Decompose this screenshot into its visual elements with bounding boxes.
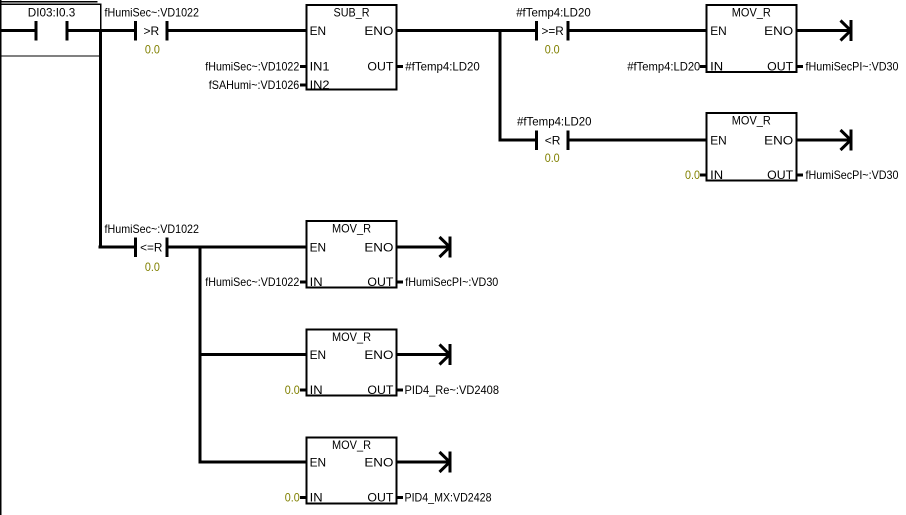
contact >R right bar <box>165 21 168 41</box>
box MOV_R U6 <box>307 438 397 504</box>
svg-text:fHumiSecPI~:VD30: fHumiSecPI~:VD30 <box>405 275 498 289</box>
contact <R right bar <box>566 131 569 151</box>
wire contact DI03 to junction A <box>69 29 101 32</box>
svg-text:>=R: >=R <box>541 24 564 38</box>
svg-text:IN1: IN1 <box>310 59 330 73</box>
svg-text:#fTemp4:LD20: #fTemp4:LD20 <box>405 59 480 73</box>
svg-text:ENO: ENO <box>764 134 793 148</box>
SUB_R IN1 stub <box>300 65 306 68</box>
svg-text:OUT: OUT <box>367 491 394 505</box>
svg-text:0.0: 0.0 <box>285 383 300 397</box>
MOV_R U4 IN stub <box>300 281 306 284</box>
MOV_R U6 IN stub <box>300 496 306 499</box>
svg-text:ENO: ENO <box>364 348 393 362</box>
svg-text:0.0: 0.0 <box>285 491 300 505</box>
elbow wire junction B to contact <R <box>499 139 536 142</box>
svg-text:EN: EN <box>310 348 327 362</box>
MOV_R U5 OUT stub <box>398 389 404 392</box>
left power rail <box>0 0 1 515</box>
selection box around contact DI03:I0.3 <box>1 4 101 56</box>
svg-text:#fTemp4:LD20: #fTemp4:LD20 <box>516 5 591 19</box>
svg-text:fHumiSecPI~:VD30: fHumiSecPI~:VD30 <box>806 168 899 182</box>
MOV_R U3 IN stub <box>700 174 706 177</box>
svg-text:IN: IN <box>710 59 723 73</box>
wire rail to contact DI03 <box>0 29 35 32</box>
svg-text:MOV_R: MOV_R <box>332 330 371 344</box>
wire MOV_R U2 ENO to arrow <box>798 29 851 32</box>
svg-text:#fTemp4:LD20: #fTemp4:LD20 <box>517 115 592 129</box>
svg-text:0.0: 0.0 <box>685 168 700 182</box>
elbow wire junction A to contact <=R <box>99 246 135 249</box>
svg-text:IN: IN <box>310 383 323 397</box>
wire MOV_R U5 ENO to arrow <box>398 353 450 356</box>
box MOV_R U4 <box>307 221 397 288</box>
junction C vertical (down to rungs 4 and 5) <box>199 246 202 464</box>
svg-text:IN: IN <box>310 275 323 289</box>
svg-text:ENO: ENO <box>364 24 393 38</box>
continuation arrow rung 2 <box>841 129 853 150</box>
svg-text:0.0: 0.0 <box>545 151 560 165</box>
wire junction B to contact >=R <box>500 29 535 32</box>
SUB_R IN2 stub <box>300 84 306 87</box>
continuation arrow rung 1 <box>841 20 853 41</box>
MOV_R U5 IN stub <box>300 389 306 392</box>
box MOV_R U3 <box>706 113 796 181</box>
svg-text:fSAHumi~:VD1026: fSAHumi~:VD1026 <box>209 78 300 92</box>
svg-text:MOV_R: MOV_R <box>732 114 771 128</box>
svg-text:DI03:I0.3: DI03:I0.3 <box>28 5 76 19</box>
wire MOV_R U6 ENO to arrow <box>398 461 450 464</box>
elbow wire junction C to MOV_R U6 EN <box>199 461 307 464</box>
continuation arrow rung 4 <box>440 344 452 365</box>
svg-text:>R: >R <box>143 24 159 38</box>
MOV_R U3 OUT stub <box>798 174 804 177</box>
svg-text:IN: IN <box>310 491 323 505</box>
MOV_R U4 OUT stub <box>398 281 404 284</box>
wire contact >R to SUB_R EN <box>168 29 306 32</box>
svg-text:ENO: ENO <box>364 241 393 255</box>
box MOV_R U2 <box>706 5 796 72</box>
svg-text:IN2: IN2 <box>310 78 330 92</box>
wire MOV_R U3 ENO to arrow <box>798 139 851 142</box>
svg-text:IN: IN <box>710 168 723 182</box>
svg-text:MOV_R: MOV_R <box>732 6 771 20</box>
svg-text:SUB_R: SUB_R <box>334 6 370 20</box>
contact DI03:I0.3 right bar <box>66 21 69 41</box>
svg-text:0.0: 0.0 <box>545 42 560 56</box>
wire junction A to contact >R <box>100 29 134 32</box>
wire MOV_R U4 ENO to arrow <box>398 246 450 249</box>
wire SUB_R ENO to junction B <box>398 29 501 32</box>
selection box top line <box>0 1 98 2</box>
contact <R left bar <box>535 131 538 151</box>
svg-text:ENO: ENO <box>364 456 393 470</box>
box SUB_R U1 <box>307 5 397 89</box>
svg-text:EN: EN <box>710 24 727 38</box>
contact >R left bar <box>134 21 137 41</box>
branch wire junction C to MOV_R U5 EN <box>199 353 307 356</box>
contact <=R right bar <box>165 238 168 258</box>
svg-text:PID4_MX:VD2428: PID4_MX:VD2428 <box>405 491 492 505</box>
svg-text:0.0: 0.0 <box>145 42 160 56</box>
svg-text:MOV_R: MOV_R <box>332 222 371 236</box>
svg-text:fHumiSecPI~:VD30: fHumiSecPI~:VD30 <box>806 59 899 73</box>
svg-text:<R: <R <box>545 133 561 147</box>
svg-text:<=R: <=R <box>140 240 163 254</box>
wire contact <R to MOV_R U3 EN <box>569 139 706 142</box>
svg-text:OUT: OUT <box>367 383 394 397</box>
wire contact <=R to MOV_R U4 EN <box>168 246 306 249</box>
svg-text:EN: EN <box>710 134 727 148</box>
continuation arrow rung 3 <box>440 236 452 257</box>
svg-text:EN: EN <box>310 241 327 255</box>
svg-text:OUT: OUT <box>367 59 394 73</box>
svg-text:OUT: OUT <box>367 275 394 289</box>
svg-text:fHumiSec~:VD1022: fHumiSec~:VD1022 <box>105 5 200 19</box>
svg-text:fHumiSec~:VD1022: fHumiSec~:VD1022 <box>205 275 299 289</box>
SUB_R OUT stub <box>398 65 404 68</box>
svg-text:EN: EN <box>310 456 327 470</box>
junction B vertical (down to rung 2) <box>499 29 502 142</box>
continuation arrow rung 5 <box>440 451 452 472</box>
MOV_R U2 OUT stub <box>798 65 804 68</box>
contact >=R left bar <box>535 21 538 41</box>
svg-text:PID4_Re~:VD2408: PID4_Re~:VD2408 <box>405 383 500 397</box>
svg-text:fHumiSec~:VD1022: fHumiSec~:VD1022 <box>105 222 200 236</box>
svg-text:#fTemp4:LD20: #fTemp4:LD20 <box>627 59 700 73</box>
MOV_R U6 OUT stub <box>398 496 404 499</box>
svg-text:fHumiSec~:VD1022: fHumiSec~:VD1022 <box>205 59 299 73</box>
contact <=R left bar <box>134 238 137 258</box>
svg-text:OUT: OUT <box>767 59 794 73</box>
junction A vertical (main branch down) <box>99 29 102 249</box>
contact >=R right bar <box>566 21 569 41</box>
contact DI03:I0.3 left bar <box>34 21 37 41</box>
box MOV_R U5 <box>307 330 397 396</box>
svg-text:OUT: OUT <box>767 168 794 182</box>
svg-text:ENO: ENO <box>764 24 793 38</box>
wire contact >=R to MOV_R U2 EN <box>569 29 706 32</box>
MOV_R U2 IN stub <box>700 65 706 68</box>
svg-text:EN: EN <box>310 24 327 38</box>
svg-text:MOV_R: MOV_R <box>332 438 371 452</box>
svg-text:0.0: 0.0 <box>145 260 160 274</box>
